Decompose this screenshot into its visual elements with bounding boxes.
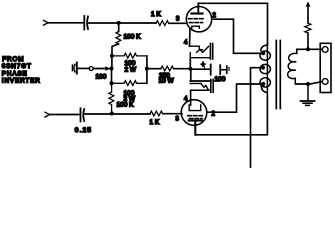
svg-text:100: 100	[215, 76, 226, 83]
svg-text:3: 3	[176, 17, 180, 23]
wire feedback up	[307, 4, 309, 24]
input arrow bottom	[45, 112, 50, 117]
feedback resistor line	[307, 33, 309, 49]
wire	[174, 68, 191, 70]
terminal circle top	[322, 47, 328, 53]
node middle (bias feed)	[110, 67, 114, 71]
svg-text:4: 4	[184, 40, 188, 46]
svg-text:6SN7GT: 6SN7GT	[2, 63, 32, 70]
wire cathode V1 down to node	[189, 58, 191, 69]
arrow feedback up	[306, 2, 311, 7]
capacitor C3 plate 2	[219, 65, 221, 74]
resistor 1K (upper grid stopper)	[151, 11, 169, 26]
wire chain	[111, 69, 113, 84]
B plus tap wire down	[251, 68, 264, 167]
resistor 100 2W upper	[112, 53, 146, 73]
capacitor C1 (0.25 input top)	[84, 16, 88, 30]
wire V2 screen to tap	[207, 84, 263, 112]
wire with arrowhead into node	[78, 66, 112, 71]
node bottom junction	[110, 112, 114, 116]
wire V1 screen to tap	[212, 19, 263, 53]
svg-text:1 K: 1 K	[150, 119, 160, 126]
tube V2 screen grid	[190, 118, 203, 120]
bottom rail wire plate V2 to transformer	[195, 96, 267, 135]
svg-text:2: 2	[213, 13, 217, 19]
tube V2 control grid	[188, 115, 203, 117]
resistor 250 10W (cathode bias)	[159, 66, 175, 85]
output terminal strip	[320, 43, 331, 92]
wire	[49, 114, 80, 116]
svg-text:PHASE: PHASE	[2, 70, 28, 77]
svg-text:100 K: 100 K	[124, 34, 142, 41]
wire	[89, 22, 156, 24]
input arrow top	[44, 20, 49, 25]
transformer core	[276, 41, 280, 109]
node tap screen V2	[261, 82, 265, 86]
terminal circle bottom	[322, 79, 328, 85]
cathode bus bar	[146, 56, 148, 83]
op tube V1 envelope	[186, 7, 211, 32]
node lower branch	[110, 81, 114, 85]
pin 4 lead V2	[190, 90, 192, 105]
resistor 100K upper	[116, 32, 141, 45]
wire cathode bus	[147, 68, 161, 70]
wire chain top	[118, 23, 120, 32]
top rail wire plate V1 to transformer	[198, 3, 267, 44]
tube V2 cathode	[189, 105, 201, 111]
wire secondary top	[297, 48, 322, 50]
ground	[301, 84, 315, 105]
resistor 100K lower	[109, 83, 134, 113]
tube V1 cathode	[192, 26, 200, 28]
svg-text:3: 3	[176, 117, 180, 123]
wire jog	[112, 44, 119, 56]
heater box V1	[190, 44, 213, 60]
tube V2 plate	[189, 121, 202, 135]
capacitor 100uF plus sign	[201, 62, 205, 69]
node tap B plus	[261, 66, 265, 70]
resistor feedback	[305, 23, 311, 33]
node feedback junction	[306, 47, 310, 51]
tube V1 plate	[192, 3, 203, 13]
wire chain	[111, 56, 113, 69]
capacitor C3 terminal bar	[226, 66, 228, 73]
node bus bar	[145, 67, 149, 71]
node top junction	[117, 21, 121, 25]
wire	[48, 22, 84, 24]
svg-text:10 W: 10 W	[159, 78, 175, 85]
capacitor C2 0.25 input bottom	[81, 108, 85, 121]
capacitor C3 stub	[228, 67, 230, 70]
heater box V2	[190, 80, 213, 93]
resistor 1K (lower grid stopper)	[150, 111, 163, 126]
wire secondary bottom	[297, 82, 322, 84]
output transformer T1 primary	[260, 44, 270, 96]
svg-text:100 K: 100 K	[117, 102, 135, 109]
svg-text:2 W: 2 W	[125, 67, 137, 74]
pin 4 lead V1	[189, 28, 192, 46]
svg-text:INVERTER: INVERTER	[2, 78, 41, 85]
node cathode junction	[189, 67, 193, 71]
tube V1 screen grid	[189, 18, 204, 20]
tube V1 control grid	[190, 22, 203, 24]
wire cathode V2 up to node	[190, 69, 192, 81]
svg-text:1 K: 1 K	[151, 11, 161, 18]
capacitor C3 100uF plate	[210, 65, 212, 75]
node tap screen V1	[261, 51, 265, 55]
wire	[221, 69, 226, 71]
tube V2 envelope	[181, 100, 207, 126]
caption FROM 6SN7GT PHASE INVERTER	[2, 56, 41, 85]
wire	[85, 113, 150, 115]
bias input capacitor stub	[72, 63, 76, 74]
svg-text:100: 100	[96, 74, 107, 81]
node upper branch	[110, 54, 114, 58]
wire node to capacitor	[191, 68, 210, 70]
transformer T1 secondary	[288, 49, 297, 84]
wire	[163, 113, 182, 115]
resistor 100 2W lower	[112, 81, 146, 103]
svg-text:FROM: FROM	[2, 56, 24, 63]
bias terminal circle	[89, 67, 93, 71]
svg-text:0.25: 0.25	[75, 127, 92, 134]
node ground junction	[306, 82, 310, 86]
wire	[169, 22, 187, 24]
